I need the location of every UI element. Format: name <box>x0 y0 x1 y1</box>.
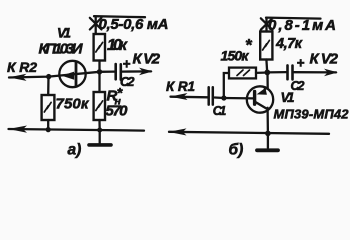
transistor V1 base bar <box>253 91 256 104</box>
resistor 750к <box>42 95 55 120</box>
svg-text:КП103И: КП103И <box>39 41 84 58</box>
wire: 150k left lead and riser to base <box>224 73 229 98</box>
node: rail terminal arrow (a) <box>9 126 28 133</box>
wire: bottom rail circuit a <box>9 129 145 131</box>
wire: 150k right lead to node <box>256 71 265 74</box>
ground (circuit b) <box>267 133 269 148</box>
svg-text:а): а) <box>68 142 82 159</box>
capacitor C2 (b) left wire <box>267 71 286 74</box>
svg-text:К R2: К R2 <box>7 59 37 75</box>
wire: base junction to transistor base <box>224 97 253 100</box>
node: drain node junction dot <box>97 69 102 74</box>
svg-text:К V2: К V2 <box>310 50 339 67</box>
wire: supply lead into 4.7k <box>265 19 267 32</box>
capacitor C2 (b) plates <box>288 65 293 79</box>
wire: supply lead into 10k <box>95 17 97 34</box>
svg-text:С2: С2 <box>120 74 135 89</box>
wire: 750k bottom lead <box>47 120 49 129</box>
wire: upper lead to collector node <box>265 72 268 89</box>
transistor V1 collector diagonal (lower) <box>255 102 266 109</box>
svg-text:б): б) <box>229 142 244 159</box>
node: K V2 terminal arrow (a) <box>139 68 153 76</box>
wire: gate line from K R2 through JFET to node <box>9 72 100 78</box>
node: K V2 terminal arrow (b) <box>324 69 338 77</box>
node: rail terminal arrow (b) <box>169 128 187 135</box>
wire: 750k top lead <box>47 77 50 95</box>
svg-text:0,5-0,6 мА: 0,5-0,6 мА <box>99 16 169 33</box>
svg-text:10к: 10к <box>107 37 128 54</box>
svg-text:750к: 750к <box>56 96 90 113</box>
resistor 150к <box>229 68 256 79</box>
wire: lower lead down to rail <box>266 108 269 133</box>
wire: K R1 lead to C1 <box>171 96 208 99</box>
capacitor C2 (a) left wire <box>100 70 115 73</box>
wire: C2 to K V2 arrow (b) <box>294 71 336 74</box>
node: K R1 terminal arrow <box>170 93 188 100</box>
svg-text:*: * <box>117 85 123 101</box>
wire: 4.7k bottom to collector node <box>265 60 268 73</box>
wire: bottom rail circuit b <box>169 132 329 134</box>
capacitor C1 plates <box>209 87 213 104</box>
wire: R_n bottom lead <box>98 120 100 130</box>
node: ground-rail junction dot <box>97 128 102 133</box>
svg-text:570: 570 <box>106 103 129 120</box>
svg-text:МП39-МП42: МП39-МП42 <box>274 107 350 122</box>
node: current-measure bar (circuit a supply) <box>94 16 145 17</box>
wire: 10k bottom to drain node <box>98 61 100 72</box>
resistor 10к <box>94 34 105 61</box>
node: base junction dot <box>221 95 226 100</box>
svg-text:V1: V1 <box>281 90 295 105</box>
svg-text:0,8-1мА: 0,8-1мА <box>268 17 336 34</box>
wire: C2 to K V2 arrow <box>122 70 151 72</box>
svg-text:+: + <box>123 57 131 72</box>
svg-text:*: * <box>245 36 253 55</box>
transistor V1 emitter arrow (upper lead, points to base) <box>257 88 267 95</box>
wire: R_n top lead <box>98 72 100 92</box>
resistor Rн 570 <box>94 92 105 120</box>
node: emitter-rail junction dot <box>265 131 271 137</box>
svg-text:V1: V1 <box>57 26 71 41</box>
svg-text:4,7к: 4,7к <box>275 36 303 52</box>
svg-text:К R1: К R1 <box>166 79 195 94</box>
ground (circuit a) <box>99 130 101 143</box>
transistor V1 channel bar <box>75 62 78 86</box>
node: current-measure bar (circuit b supply) <box>266 18 321 19</box>
node: K R2 terminal arrow <box>9 74 27 81</box>
transistor V1 gate arrow (p-channel, points left) <box>62 72 75 80</box>
wire: C1 to base junction <box>215 96 224 99</box>
transistor V1 KP103I body <box>59 61 85 87</box>
resistor 4,7к <box>260 32 272 60</box>
node: current break mark X (circuit a) <box>90 18 102 30</box>
transistor V1 MP39 body <box>247 86 273 112</box>
svg-text:К V2: К V2 <box>133 51 161 68</box>
svg-text:С1: С1 <box>213 104 227 118</box>
svg-text:+: + <box>297 56 305 71</box>
node: collector node junction dot <box>264 70 270 76</box>
node: gate junction dot <box>46 74 51 79</box>
node: 750k-rail junction dot <box>46 127 51 132</box>
capacitor C2 (a) plates <box>116 64 121 80</box>
node: current break mark X (circuit b) <box>261 18 273 29</box>
